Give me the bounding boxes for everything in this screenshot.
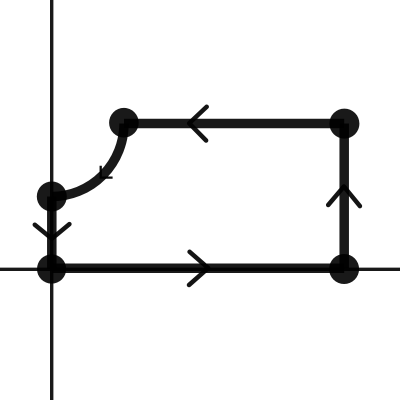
- wire arc segment: [52, 124, 124, 197]
- arrow down (left segment): [35, 224, 70, 239]
- y-axis: [50, 0, 53, 400]
- wire top segment: [124, 119, 344, 129]
- wire right segment: [339, 124, 349, 269]
- node origin: [37, 254, 66, 283]
- arrow up (right segment): [328, 187, 360, 207]
- x-axis: [0, 268, 400, 271]
- wire bottom segment: [52, 263, 345, 273]
- wire left segment: [47, 197, 57, 270]
- node top-right: [329, 109, 359, 139]
- node on y-axis: [37, 182, 67, 212]
- arrow on arc (small L chevron): [101, 166, 113, 178]
- node top-left: [109, 108, 139, 138]
- node bottom-right: [329, 254, 359, 284]
- arrow right (bottom segment): [189, 252, 208, 285]
- arrow left (top segment): [189, 107, 207, 141]
